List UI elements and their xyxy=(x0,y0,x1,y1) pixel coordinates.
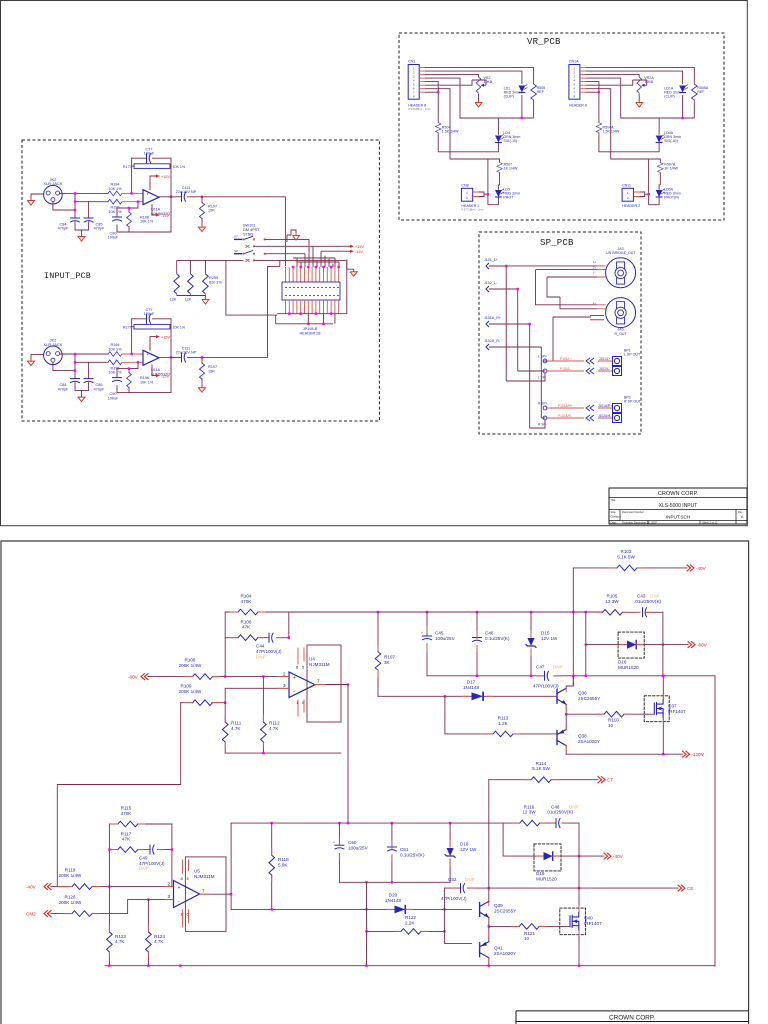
svg-text:4.7K: 4.7K xyxy=(154,939,164,944)
capacitor C111 xyxy=(182,192,186,201)
diode D19 MUR1520 (DNP dashed box) xyxy=(534,844,561,871)
svg-text:47P/100V(J): 47P/100V(J) xyxy=(139,861,165,866)
svg-text:J101_L+: J101_L+ xyxy=(484,258,498,262)
node A xyxy=(74,192,76,194)
VR_PCB dashed boundary xyxy=(399,33,724,220)
svg-text:R SP-: R SP- xyxy=(538,423,547,427)
VR_PCB channel A labels xyxy=(408,60,545,212)
svg-text:CN8: CN8 xyxy=(461,184,468,188)
wire R195 to -in xyxy=(122,201,143,203)
svg-text:J102/L-: J102/L- xyxy=(599,367,610,371)
svg-text:R177: R177 xyxy=(123,165,132,169)
wire routing below header xyxy=(276,260,347,324)
svg-text:1.2K: 1.2K xyxy=(498,721,508,726)
svg-text:Date:: Date: xyxy=(611,520,617,524)
svg-text:R107: R107 xyxy=(384,655,395,660)
wire R106/C44 row xyxy=(225,612,289,638)
svg-text:DNP: DNP xyxy=(256,654,266,659)
svg-text:HEADER 2: HEADER 2 xyxy=(622,204,640,208)
INPUT_PCB dashed boundary xyxy=(22,140,379,421)
wire feedback right column xyxy=(171,824,173,887)
svg-text:+15V: +15V xyxy=(161,175,170,179)
connector P108-B HEADER 28 xyxy=(282,282,340,300)
svg-text:-40V: -40V xyxy=(613,854,624,859)
capacitor C90 xyxy=(113,217,122,221)
resistor R106 xyxy=(238,635,258,641)
net -40V xyxy=(687,565,694,571)
svg-text:J102A/R-: J102A/R- xyxy=(598,414,611,418)
wire R194 to +in xyxy=(122,192,143,194)
capacitor C45 xyxy=(426,612,428,676)
svg-text:2: 2 xyxy=(168,881,171,886)
chevron arrows on BP rows xyxy=(586,358,594,421)
resistor R507 xyxy=(497,163,503,173)
svg-text:10KB: 10KB xyxy=(644,80,653,84)
resistor R112 xyxy=(262,677,264,754)
svg-text:100u/25V: 100u/25V xyxy=(435,636,456,641)
svg-text:DNP: DNP xyxy=(465,877,475,882)
diode D17 1N4148 xyxy=(472,692,484,700)
wire op-amp output xyxy=(315,684,349,686)
net -80V right xyxy=(663,644,688,646)
svg-text:U5: U5 xyxy=(194,869,200,874)
wire right trunk down xyxy=(714,676,716,967)
switch pole 2 xyxy=(234,249,266,262)
svg-text:Rev: Rev xyxy=(738,510,743,514)
svg-text:(CLIP): (CLIP) xyxy=(664,95,674,99)
wire bottom row under opamp xyxy=(225,752,341,754)
svg-text:R115: R115 xyxy=(121,806,132,811)
svg-text:R120: R120 xyxy=(65,895,76,900)
svg-text:R_OUT: R_OUT xyxy=(615,332,628,336)
svg-text:10K 1%: 10K 1% xyxy=(173,165,186,169)
wire jack to R194 xyxy=(60,192,108,194)
wire C43/R105 verticals xyxy=(586,612,663,676)
svg-text:12V 1W: 12V 1W xyxy=(460,847,477,852)
svg-text:1+: 1+ xyxy=(593,301,596,305)
wire upper rail to out node xyxy=(230,823,232,894)
svg-text:NJM311M: NJM311M xyxy=(309,662,330,667)
resistor R122 xyxy=(401,929,421,935)
svg-text:DNP: DNP xyxy=(139,866,149,871)
svg-text:P102A/R-: P102A/R- xyxy=(558,414,572,418)
svg-text:47P/100V(J): 47P/100V(J) xyxy=(533,684,559,689)
svg-text:1.5K 1/4W: 1.5K 1/4W xyxy=(603,130,620,134)
wire R113 row xyxy=(445,696,557,734)
capacitor C85 xyxy=(84,218,93,222)
wire pin2 to LD1 xyxy=(425,71,522,118)
wire v366 down xyxy=(366,882,368,965)
svg-text:100u/25V: 100u/25V xyxy=(348,845,369,850)
capacitor C43 xyxy=(643,608,647,617)
svg-text:Sheet 2 of 12: Sheet 2 of 12 xyxy=(702,520,718,524)
svg-text:R117: R117 xyxy=(121,831,132,836)
svg-text:D19: D19 xyxy=(536,871,545,876)
svg-text:D15: D15 xyxy=(541,631,550,636)
svg-text:Thursday, December 20, 2007: Thursday, December 20, 2007 xyxy=(622,520,657,524)
wire mini rail y882.3 xyxy=(339,881,450,883)
svg-text:J102_L-: J102_L- xyxy=(484,281,498,285)
wire -15V row xyxy=(321,251,350,267)
wire pin4 loop left xyxy=(425,78,500,118)
resistor R505 REF xyxy=(531,84,537,100)
wire pin3 to VR2 xyxy=(425,75,479,77)
svg-text:1K 1/4W: 1K 1/4W xyxy=(664,167,678,171)
svg-text:J101A_R+: J101A_R+ xyxy=(484,316,501,320)
diode D18 zener xyxy=(449,823,451,882)
mosfet Q37 IRF1407 (dashed box) xyxy=(644,696,669,722)
wire U5 output xyxy=(199,894,231,909)
resistor R108 xyxy=(193,674,213,680)
svg-text:47P/100V(J): 47P/100V(J) xyxy=(256,649,282,654)
svg-text:DNP: DNP xyxy=(650,594,660,599)
svg-text:12 3W: 12 3W xyxy=(522,810,536,815)
svg-text:PROT(R): PROT(R) xyxy=(664,196,679,200)
svg-text:+: + xyxy=(178,885,181,891)
svg-text:R194: R194 xyxy=(110,183,119,187)
resistor R195 xyxy=(108,199,122,204)
wire feedback right column to output xyxy=(170,158,172,232)
svg-text:0.1u/25V(K): 0.1u/25V(K) xyxy=(485,636,510,641)
svg-text:200K 1/4W: 200K 1/4W xyxy=(59,900,82,905)
wire left loop xyxy=(226,260,277,315)
wire trunk from R109 down-left xyxy=(57,703,180,887)
op-amp top/bottom pin stubs xyxy=(298,648,304,716)
svg-text:1.5K 1/4W: 1.5K 1/4W xyxy=(442,130,459,134)
LED LD4 xyxy=(497,118,499,135)
wire R121 row xyxy=(489,925,562,927)
wire jack pin3 down xyxy=(53,193,89,218)
svg-text:SIG(-10): SIG(-10) xyxy=(503,139,517,143)
wire long rail y675.8 with C47 xyxy=(427,675,715,677)
wire weave left xyxy=(489,266,597,428)
svg-text:L SP+: L SP+ xyxy=(538,355,547,359)
wire op-amp output xyxy=(159,196,181,198)
wire R108 to +in (pin2 row) xyxy=(213,676,290,678)
svg-text:Title: Title xyxy=(611,498,616,502)
svg-text:CT: CT xyxy=(607,778,613,783)
capacitor C77 xyxy=(132,157,171,159)
svg-text:470pF: 470pF xyxy=(58,227,69,231)
svg-text:-15V: -15V xyxy=(355,250,363,254)
wire pin1 loop top xyxy=(425,68,534,118)
svg-text:4.7K: 4.7K xyxy=(115,939,125,944)
resistor R119 xyxy=(72,884,92,890)
svg-text:L/N BRIDGE_OUT: L/N BRIDGE_OUT xyxy=(606,251,637,255)
svg-text:R108: R108 xyxy=(185,658,196,663)
wire -40V to R119 xyxy=(51,886,72,888)
wire R109 row xyxy=(181,702,226,704)
capacitor C51 xyxy=(391,823,393,882)
op-amp U11A xyxy=(143,190,159,205)
svg-text:-80V: -80V xyxy=(128,675,139,680)
svg-text:STBD: STBD xyxy=(243,232,253,236)
svg-text:470pF: 470pF xyxy=(94,227,105,231)
svg-text:CN1: CN1 xyxy=(408,60,415,64)
-15V power xyxy=(152,204,156,215)
svg-text:1N4148: 1N4148 xyxy=(385,898,402,903)
capacitor C44 xyxy=(269,633,273,642)
svg-text:22u/16V NP: 22u/16V NP xyxy=(176,190,197,194)
wire D17 row xyxy=(378,695,557,697)
svg-text:C52: C52 xyxy=(448,877,457,882)
svg-text:-15V: -15V xyxy=(161,214,169,218)
svg-text:R116: R116 xyxy=(524,804,535,809)
resistor R113 xyxy=(493,731,513,737)
svg-text:IRF1407: IRF1407 xyxy=(668,709,686,714)
connector CN8 HEADER 2 xyxy=(461,188,472,201)
svg-text:100uF: 100uF xyxy=(144,152,155,156)
wire R119 to +in xyxy=(92,886,174,888)
svg-text:Q38: Q38 xyxy=(578,734,587,739)
svg-text:IRF1407: IRF1407 xyxy=(584,921,602,926)
wire switch rows xyxy=(254,239,350,267)
wire R103 trunk xyxy=(572,568,574,686)
connector JA5 R_OUT speakon xyxy=(606,298,636,328)
svg-text:C43: C43 xyxy=(637,594,646,599)
svg-text:REF: REF xyxy=(537,90,545,94)
svg-text:10K 1%: 10K 1% xyxy=(108,187,122,191)
svg-text:C45: C45 xyxy=(435,631,444,636)
capacitor C52 xyxy=(461,884,465,893)
svg-text:-40V: -40V xyxy=(26,885,37,890)
speaker terminals L SP xyxy=(543,359,547,420)
svg-text:S2: S2 xyxy=(234,249,238,253)
svg-text:12 3W: 12 3W xyxy=(605,599,619,604)
svg-text:15K: 15K xyxy=(208,209,215,213)
potentiometer VR2 xyxy=(476,77,480,93)
svg-text:J101/L+: J101/L+ xyxy=(599,357,611,361)
svg-text:P ETC/Bk=1 - 3mm: P ETC/Bk=1 - 3mm xyxy=(461,207,483,211)
wire caps to ground xyxy=(75,222,89,234)
resistor R196 xyxy=(127,212,132,227)
wire feedback left column xyxy=(131,158,133,193)
svg-text:+: + xyxy=(147,192,150,197)
svg-text:47K: 47K xyxy=(122,837,131,842)
svg-text:XLS-5000 INPUT: XLS-5000 INPUT xyxy=(659,503,698,509)
capacitor C50 xyxy=(338,823,340,882)
svg-text:Size: Size xyxy=(611,510,617,514)
svg-text:200K 1/4W: 200K 1/4W xyxy=(179,663,202,668)
svg-text:C46: C46 xyxy=(485,631,494,636)
net CE xyxy=(678,885,685,891)
wire -80V to R108 xyxy=(148,676,193,678)
svg-text:R110: R110 xyxy=(608,718,619,723)
svg-text:R121: R121 xyxy=(524,931,535,936)
wire C111 to out xyxy=(188,196,268,198)
svg-text:SIG(-40): SIG(-40) xyxy=(664,139,678,143)
wire pin8 xyxy=(425,91,438,93)
resistor R254 xyxy=(189,294,191,295)
wire routing bundle above header xyxy=(293,256,339,268)
svg-text:47P/100V(J): 47P/100V(J) xyxy=(441,896,467,901)
svg-text:0.1u/25V(K): 0.1u/25V(K) xyxy=(400,852,425,857)
svg-text:SW101: SW101 xyxy=(243,224,255,228)
wire R110 row xyxy=(566,713,647,715)
wire VR2 to ground, pin6 to wiper xyxy=(425,80,486,100)
wire CT trunk xyxy=(488,780,490,888)
svg-text:Q36: Q36 xyxy=(578,691,587,696)
capacitor C84 xyxy=(71,218,80,222)
svg-text:P101/L+: P101/L+ xyxy=(560,357,572,361)
wire CM2 to R120 xyxy=(51,913,72,915)
svg-text:CN1A: CN1A xyxy=(569,60,579,64)
transistor Q41 2SA1020Y xyxy=(480,942,489,958)
net CT xyxy=(598,777,605,783)
svg-text:DNP: DNP xyxy=(553,665,563,670)
svg-text:7: 7 xyxy=(202,889,205,894)
unconnected stubs JA5 xyxy=(590,316,604,320)
svg-text:10KB: 10KB xyxy=(484,80,493,84)
transistor Q38 2SA1020Y xyxy=(557,729,566,745)
resistor R120 xyxy=(72,911,92,917)
resistor R114 xyxy=(489,779,598,781)
svg-text:.01u/250V(K): .01u/250V(K) xyxy=(634,599,662,604)
svg-text:4.7K: 4.7K xyxy=(269,726,279,731)
svg-text:HEADER 8: HEADER 8 xyxy=(569,103,587,107)
svg-text:+: + xyxy=(293,675,296,681)
svg-text:Q41: Q41 xyxy=(494,946,503,951)
svg-text:-120V: -120V xyxy=(692,752,705,757)
resistor R105 xyxy=(603,611,641,613)
wire pin7 down to lower loop xyxy=(425,89,500,205)
resistor R121 xyxy=(519,924,539,930)
svg-text:S7: S7 xyxy=(234,235,238,239)
svg-text:7: 7 xyxy=(317,679,320,684)
svg-text:100uF: 100uF xyxy=(108,236,119,240)
svg-text:R104: R104 xyxy=(241,594,252,599)
wire to pin3 row xyxy=(225,688,289,702)
resistor R107 xyxy=(377,612,379,696)
svg-text:1-: 1- xyxy=(593,271,595,275)
svg-text:NJM311M: NJM311M xyxy=(194,874,215,879)
diode D15 zener xyxy=(530,612,532,676)
svg-text:2SA1020Y: 2SA1020Y xyxy=(578,739,600,744)
LED LD1 xyxy=(519,85,528,93)
op-amp U5 xyxy=(174,881,200,908)
svg-text:J102A_R-: J102A_R- xyxy=(484,339,501,343)
net labels P101/L+ etc xyxy=(558,357,573,418)
wire terminal pin stubs (component leads) xyxy=(57,568,663,962)
wire feedback left column xyxy=(224,612,226,677)
svg-text:CM2: CM2 xyxy=(26,912,36,917)
svg-text:200K 1/4W: 200K 1/4W xyxy=(179,689,202,694)
svg-text:2: 2 xyxy=(283,671,286,676)
svg-text:-80V: -80V xyxy=(697,643,708,648)
svg-text:470K: 470K xyxy=(241,599,253,604)
svg-text:P101A/R+: P101A/R+ xyxy=(558,404,573,408)
wire top rail y612 xyxy=(225,611,602,613)
wire -120V row xyxy=(566,753,682,755)
op-amp channel 2 (U11B / JK4 XLR JACK mirrored circuit) xyxy=(28,308,268,402)
svg-text:HEADER 28: HEADER 28 xyxy=(299,331,320,335)
resistor R177 (box style) xyxy=(134,164,170,169)
svg-text:3: 3 xyxy=(168,894,171,899)
capacitor C46 xyxy=(476,612,478,676)
ground right xyxy=(347,260,354,270)
svg-text:D20: D20 xyxy=(389,893,398,898)
svg-text:MUR1520: MUR1520 xyxy=(618,665,639,670)
title block page 2 (partial) xyxy=(516,1011,749,1024)
resistor R110 xyxy=(604,711,624,717)
connector JK2 XLR JACK xyxy=(44,185,63,204)
connector JA3 L/N BRIDGE_OUT speakon xyxy=(606,258,636,288)
wire ch2 out to header bottom xyxy=(268,260,280,357)
speakon terminal stubs xyxy=(597,266,606,309)
svg-text:12K: 12K xyxy=(170,298,177,302)
svg-text:5.9K: 5.9K xyxy=(278,863,288,868)
svg-text:CROWN CORP.: CROWN CORP. xyxy=(658,491,699,497)
capacitor C47 xyxy=(545,671,549,680)
svg-text:2SC2655Y: 2SC2655Y xyxy=(494,908,516,913)
header pin stubs xyxy=(419,68,425,93)
resistor R123 xyxy=(107,932,113,952)
svg-text:10K 1%: 10K 1% xyxy=(140,220,154,224)
svg-text:CROWN CORP.: CROWN CORP. xyxy=(609,1014,655,1021)
ground xyxy=(475,100,482,107)
svg-text:R111: R111 xyxy=(231,721,242,726)
svg-text:R109: R109 xyxy=(181,684,192,689)
LED LD5 xyxy=(498,185,499,190)
junctions above header xyxy=(292,266,294,268)
resistor R197 xyxy=(201,197,203,225)
svg-text:Document Number: Document Number xyxy=(622,510,644,514)
svg-text:C49: C49 xyxy=(139,856,148,861)
svg-text:10: 10 xyxy=(524,936,530,941)
svg-text:DNP: DNP xyxy=(569,804,579,809)
header pin stubs below xyxy=(286,300,339,314)
svg-text:10K 1%: 10K 1% xyxy=(108,210,122,214)
wire ch1 out down to header xyxy=(268,197,286,266)
svg-text:HEADER 8: HEADER 8 xyxy=(408,103,426,107)
ground xyxy=(28,198,35,205)
svg-text:470K: 470K xyxy=(121,811,133,816)
diode D16 MUR1520 (DNP dashed box) xyxy=(618,632,644,658)
wire jack left to ground xyxy=(31,194,44,198)
svg-text:R255: R255 xyxy=(209,276,218,280)
wire v444 column xyxy=(444,888,471,943)
svg-text:REF: REF xyxy=(697,90,705,94)
svg-text:Q39: Q39 xyxy=(494,903,503,908)
R116/C48 loop xyxy=(503,823,579,888)
svg-text:.01u/250V(K): .01u/250V(K) xyxy=(546,810,574,815)
ground xyxy=(78,234,85,241)
svg-text:820 1%: 820 1% xyxy=(209,280,223,284)
op-amp U4 xyxy=(289,672,315,698)
svg-text:R114: R114 xyxy=(536,761,547,766)
resistor R253 xyxy=(176,294,178,295)
svg-text:R106: R106 xyxy=(241,619,252,624)
svg-text:CN11: CN11 xyxy=(622,184,631,188)
svg-text:1+: 1+ xyxy=(593,260,596,264)
wire rail y823 xyxy=(231,822,503,824)
svg-text:R103: R103 xyxy=(621,549,632,554)
svg-text:L SP OUT: L SP OUT xyxy=(624,353,641,357)
wire R120 to pin3 row xyxy=(92,900,174,914)
resistor R115 xyxy=(109,823,171,825)
svg-text:XLR JACK: XLR JACK xyxy=(43,181,62,186)
svg-text:R119: R119 xyxy=(65,868,76,873)
svg-text:1K 1/4W: 1K 1/4W xyxy=(504,167,518,171)
power +15V xyxy=(350,245,354,248)
svg-text:+: + xyxy=(421,631,423,635)
resistor R124 xyxy=(147,900,149,966)
svg-text:C44: C44 xyxy=(256,644,265,649)
diode D20 1N4148 xyxy=(395,905,406,913)
svg-text:C48: C48 xyxy=(551,804,560,809)
transistor Q39 2SC2655Y xyxy=(480,901,489,917)
svg-text:P102/L-: P102/L- xyxy=(560,367,571,371)
